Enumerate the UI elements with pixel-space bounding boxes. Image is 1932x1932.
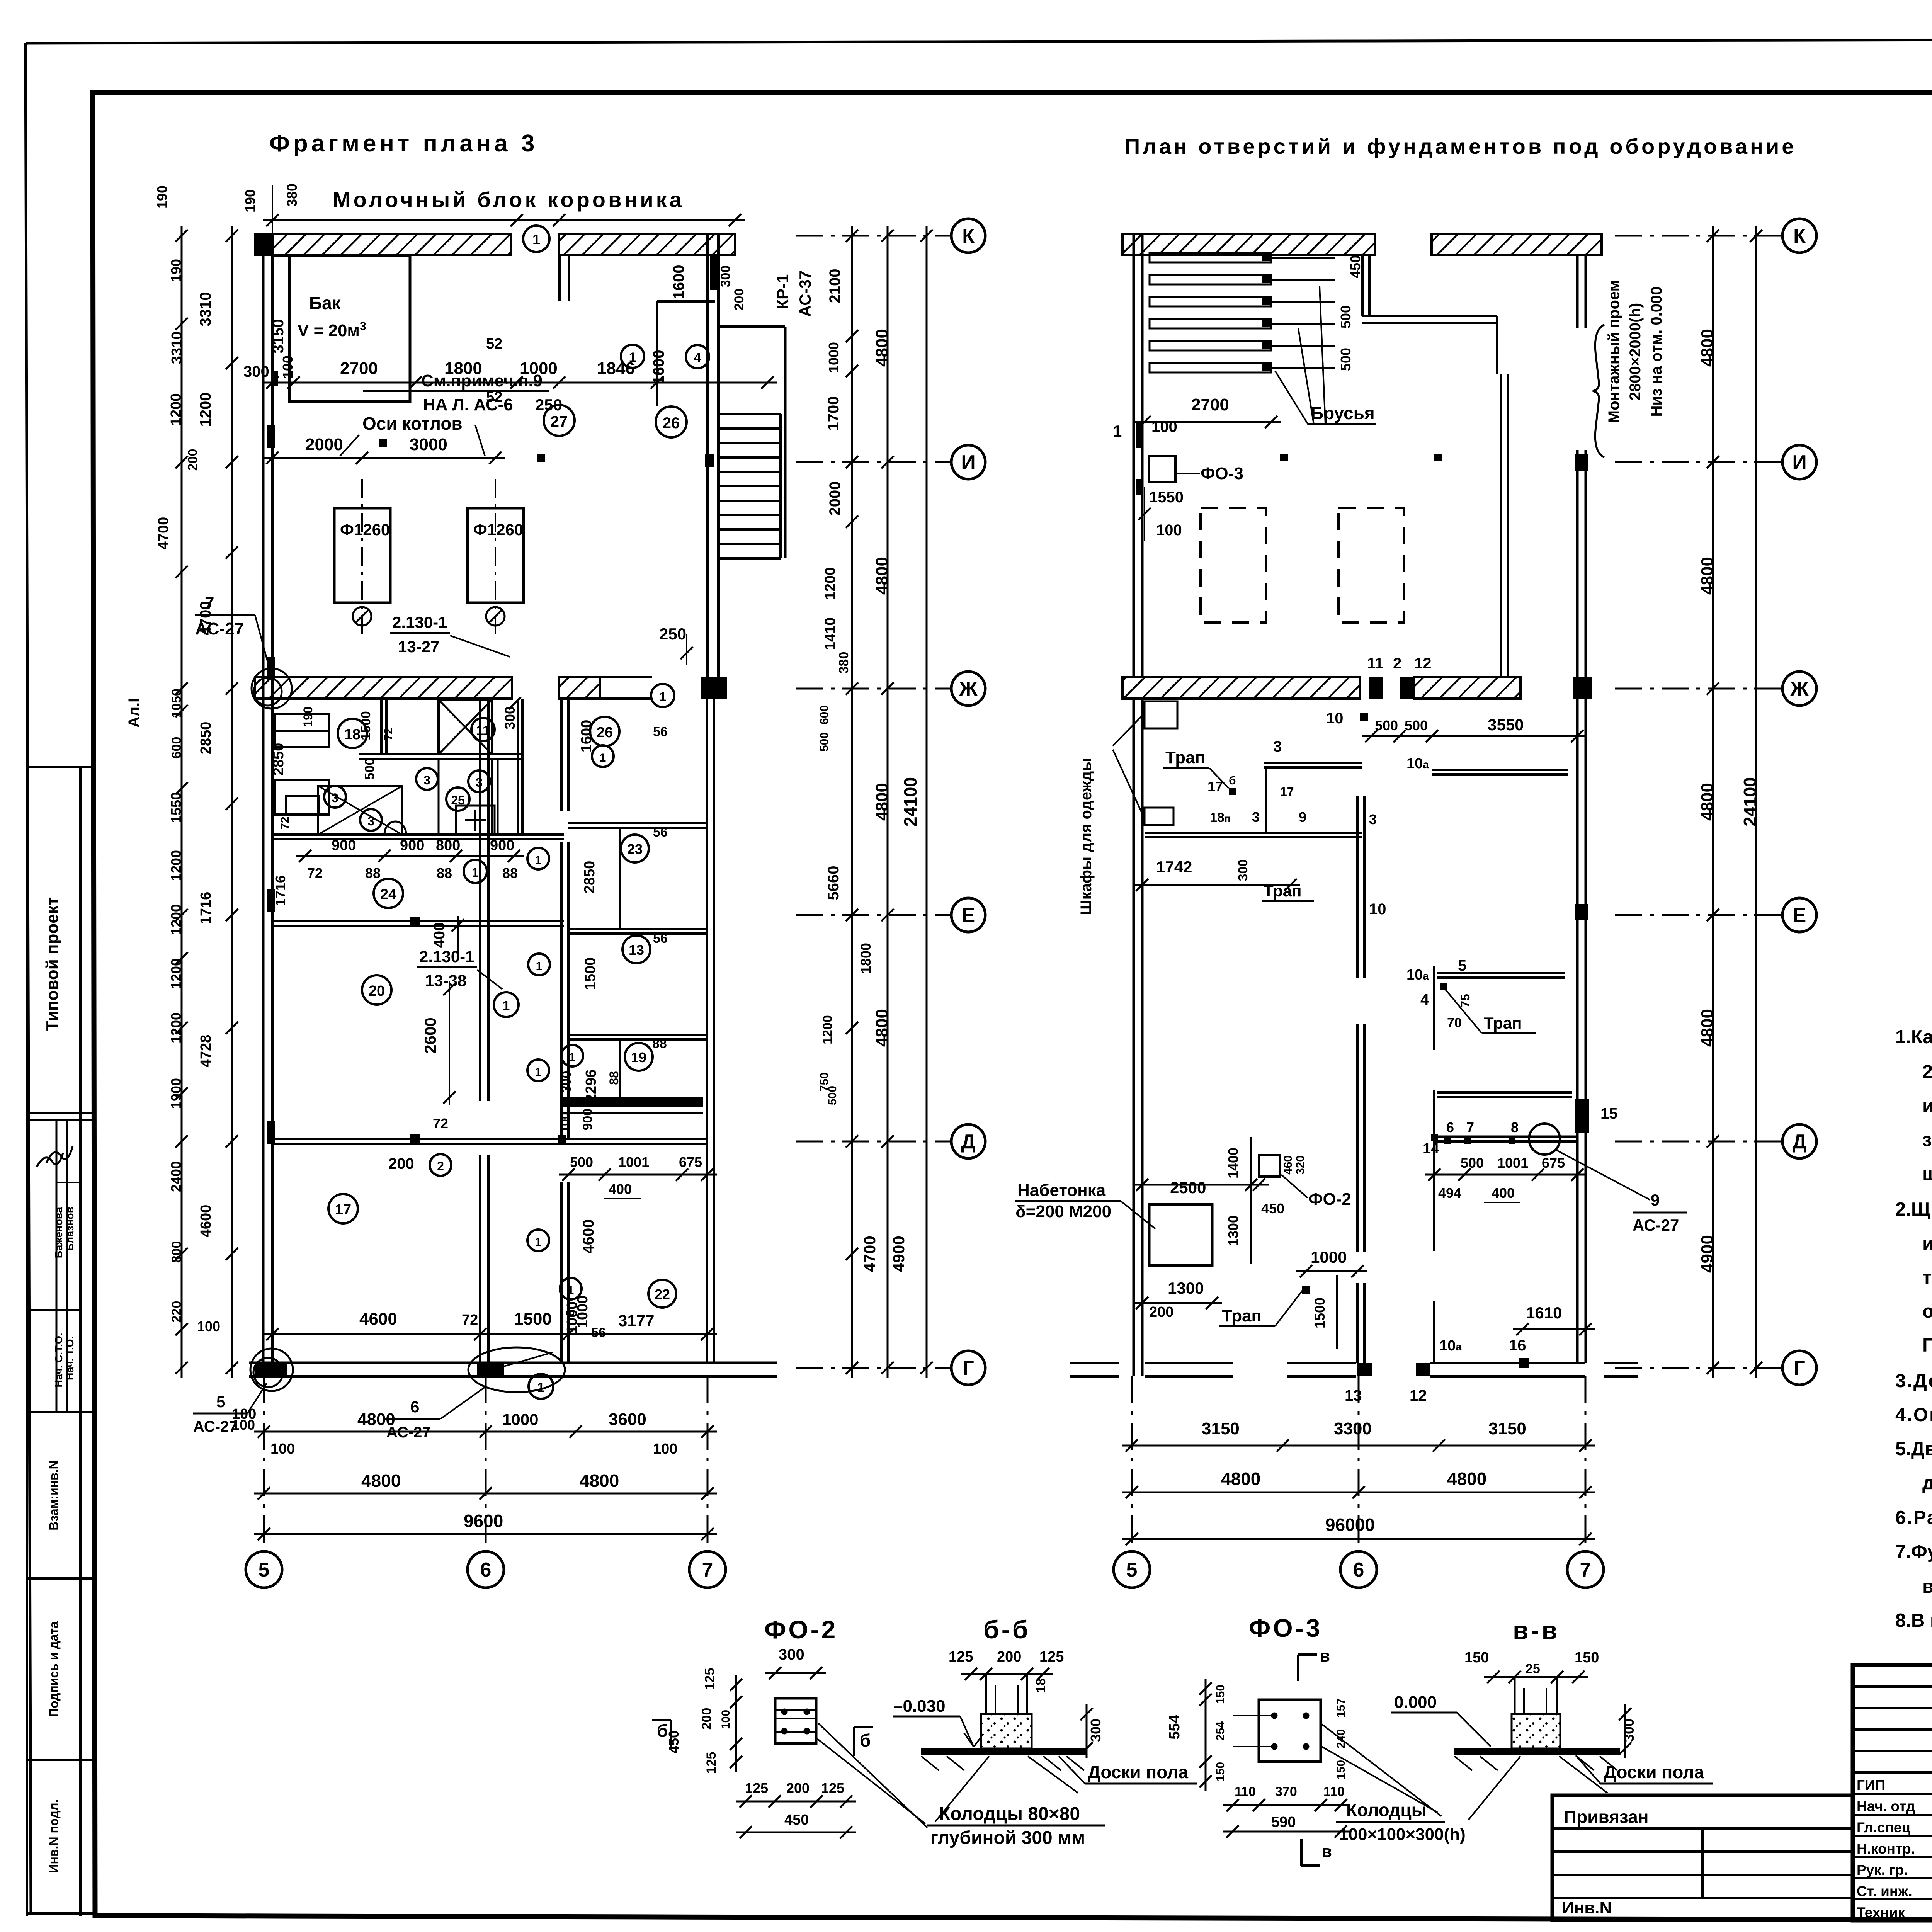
svg-text:Привязан: Привязан — [1564, 1807, 1649, 1827]
svg-text:17: 17 — [335, 1202, 351, 1218]
svg-text:88: 88 — [502, 865, 518, 881]
svg-text:б: б — [1229, 774, 1236, 787]
plan2 right dim chain — [1698, 226, 1719, 1378]
plan2 room 15 block — [1423, 1090, 1687, 1251]
svg-text:б-б: б-б — [983, 1615, 1031, 1644]
rotated label: Подпись и дата — [47, 1621, 61, 1717]
трап + partitions (rooms 17б/18п/3/9) — [1133, 738, 1568, 901]
svg-text:2850: 2850 — [270, 743, 287, 776]
svg-text:3150: 3150 — [1488, 1419, 1526, 1438]
привязан box — [1552, 1795, 1853, 1920]
svg-text:б: б — [657, 1721, 668, 1741]
svg-text:450: 450 — [666, 1730, 682, 1753]
svg-text:2850: 2850 — [198, 722, 214, 755]
svg-text:Е: Е — [962, 904, 975, 927]
notes text block — [1895, 1027, 1932, 1631]
small column squares plan2 — [1280, 454, 1442, 461]
svg-text:1000: 1000 — [520, 359, 558, 378]
svg-text:200: 200 — [732, 289, 747, 311]
svg-text:22: 22 — [655, 1286, 670, 1302]
sanitary block partitions (rooms 18/25/3) — [272, 699, 564, 839]
svg-text:и обвязки 80×25(100×50)мм,сбив: и обвязки 80×25(100×50)мм,сбиваемые гвоз… — [1922, 1095, 1932, 1116]
small black column marks (plan1 top room) — [272, 371, 545, 462]
svg-text:2000: 2000 — [305, 435, 343, 454]
svg-text:500: 500 — [818, 732, 831, 752]
svg-text:5: 5 — [259, 1559, 270, 1581]
plan2 top wall (axis К) hatched — [1122, 234, 1602, 255]
svg-text:2500: 2500 — [1170, 1179, 1206, 1197]
svg-text:300: 300 — [718, 265, 733, 287]
svg-text:500: 500 — [1405, 718, 1428, 733]
svg-text:1: 1 — [472, 866, 479, 879]
svg-text:190: 190 — [168, 259, 184, 282]
svg-text:6.Работать совместно с листом: 6.Работать совместно с листом АС-4,АС-5. — [1895, 1507, 1932, 1528]
svg-text:1500: 1500 — [582, 957, 599, 990]
svg-text:25: 25 — [451, 793, 465, 807]
svg-text:4800: 4800 — [872, 329, 891, 367]
svg-text:3310: 3310 — [169, 332, 185, 364]
svg-text:1: 1 — [532, 231, 540, 247]
svg-text:К: К — [1793, 225, 1806, 247]
subtitle: Молочный блок коровника — [333, 187, 684, 212]
plan1 middle wall (axis Ж) hatched — [255, 677, 727, 699]
svg-text:157: 157 — [1335, 1698, 1347, 1718]
svg-text:4: 4 — [1420, 991, 1429, 1008]
svg-text:200: 200 — [1149, 1304, 1173, 1320]
boiler 2 (Ф1260) — [468, 479, 524, 638]
plan1 right dim chain — [818, 226, 874, 1378]
svg-text:20: 20 — [369, 983, 385, 999]
svg-text:10: 10 — [1326, 710, 1344, 727]
svg-text:12: 12 — [1410, 1387, 1427, 1404]
svg-text:И: И — [1792, 451, 1806, 474]
svg-text:Трап: Трап — [1222, 1306, 1262, 1325]
svg-text:15: 15 — [1600, 1105, 1618, 1122]
svg-text:КР-1: КР-1 — [774, 274, 792, 310]
svg-text:190: 190 — [242, 189, 258, 213]
detail б-б — [893, 1615, 1197, 1822]
svg-text:150: 150 — [1214, 1762, 1227, 1781]
svg-text:16: 16 — [1509, 1337, 1526, 1354]
svg-text:190: 190 — [301, 706, 315, 727]
svg-text:52: 52 — [486, 336, 502, 352]
svg-text:1: 1 — [568, 1284, 574, 1297]
svg-text:δ=200 М200: δ=200 М200 — [1015, 1202, 1111, 1221]
svg-text:Ж: Ж — [959, 678, 978, 700]
svg-text:1: 1 — [536, 960, 543, 973]
svg-text:2.Щитовые перегородки выполняю: 2.Щитовые перегородки выполняются из дер… — [1895, 1199, 1932, 1220]
callout 7/АС-27 upper left — [195, 594, 292, 709]
svg-text:800: 800 — [436, 837, 460, 854]
svg-text:200: 200 — [185, 449, 200, 471]
svg-text:выполнять совместно с бетониро: выполнять совместно с бетонированием пол… — [1922, 1576, 1932, 1597]
svg-text:2600: 2600 — [421, 1017, 439, 1053]
svg-text:шивка листами твердой ДВП δ=4: шивка листами твердой ДВП δ=4 мм ГОСТ 45… — [1922, 1163, 1932, 1184]
svg-text:250: 250 — [659, 625, 686, 643]
dashed foundation rectangles — [1201, 508, 1404, 622]
svg-text:300: 300 — [779, 1646, 804, 1663]
plan2 bottom dim chains — [1122, 1419, 1595, 1545]
svg-text:250: 250 — [535, 396, 562, 414]
rotated label: Взамен инв.N — [47, 1460, 61, 1530]
svg-text:24: 24 — [380, 886, 396, 903]
svg-text:2850: 2850 — [582, 861, 598, 894]
svg-text:52: 52 — [486, 389, 502, 405]
svg-text:Ст. инж.: Ст. инж. — [1857, 1883, 1912, 1899]
svg-text:4800: 4800 — [872, 783, 891, 821]
svg-text:8.В гардеробной установить шка: 8.В гардеробной установить шкафы по ГОСТ… — [1895, 1610, 1932, 1631]
boiler axes label: Оси котлов — [340, 413, 485, 456]
svg-text:900: 900 — [580, 1109, 595, 1131]
plan1 left wall — [263, 234, 275, 1376]
svg-text:72: 72 — [307, 865, 323, 881]
svg-text:190: 190 — [154, 185, 170, 209]
svg-text:заполнение минераловатными пли: заполнение минераловатными плитами δ=80м… — [1922, 1129, 1932, 1150]
svg-text:4800: 4800 — [1221, 1469, 1260, 1489]
svg-text:100: 100 — [270, 1441, 295, 1457]
svg-text:1600: 1600 — [650, 350, 667, 384]
svg-text:3: 3 — [332, 791, 338, 805]
detail ФО-3 — [1167, 1614, 1466, 1866]
staircase — [719, 327, 785, 558]
svg-text:1200: 1200 — [168, 904, 184, 935]
svg-text:1300: 1300 — [1225, 1215, 1241, 1246]
plan1 right total dim 24100 — [900, 226, 933, 1378]
svg-text:56: 56 — [653, 825, 668, 840]
plan2 набетонка square + label — [1015, 1181, 1222, 1320]
svg-text:7: 7 — [1580, 1559, 1591, 1581]
svg-text:Типовой проект: Типовой проект — [43, 897, 62, 1031]
plan2 ФО-2 square + dims — [1133, 1137, 1351, 1264]
ФО-3 square in plan2 — [1138, 456, 1243, 541]
svg-text:1: 1 — [1113, 422, 1122, 440]
svg-text:675: 675 — [1542, 1155, 1565, 1171]
plan1 bottom dim chains — [232, 1406, 717, 1540]
svg-text:1500: 1500 — [514, 1310, 552, 1328]
svg-text:2400: 2400 — [168, 1161, 184, 1192]
left dim chain (outer) plan1 — [154, 185, 255, 1433]
plan2 bottom wall (axis Г) — [1070, 1363, 1638, 1404]
svg-text:в-в: в-в — [1513, 1616, 1560, 1645]
svg-text:125: 125 — [704, 1752, 719, 1774]
plan2 трап + 1000/1500 dims — [1219, 1248, 1367, 1349]
svg-text:800: 800 — [169, 1241, 184, 1263]
svg-text:220: 220 — [169, 1301, 184, 1323]
svg-text:1050: 1050 — [169, 689, 184, 718]
svg-text:для самозакрывания и уплотните: для самозакрывания и уплотнителями в при… — [1922, 1473, 1932, 1493]
svg-text:ГОСТ 2850-80.: ГОСТ 2850-80. — [1922, 1335, 1932, 1356]
svg-text:Монтажный проем: Монтажный проем — [1605, 280, 1622, 423]
svg-text:и обшиваются листами твердой Д: и обшиваются листами твердой ДВП δ=4мм Г… — [1922, 1233, 1932, 1254]
svg-text:Е: Е — [1793, 904, 1806, 927]
svg-text:Подпись и дата: Подпись и дата — [47, 1621, 61, 1717]
svg-text:125: 125 — [821, 1780, 844, 1796]
svg-text:3600: 3600 — [609, 1410, 646, 1429]
dim 250 у Ж wall — [651, 625, 693, 707]
svg-text:18: 18 — [1034, 1678, 1048, 1693]
svg-text:88: 88 — [365, 865, 381, 881]
svg-text:380: 380 — [837, 652, 851, 674]
svg-text:Низ на отм. 0.000: Низ на отм. 0.000 — [1648, 287, 1665, 417]
room 17 circle — [328, 1194, 358, 1223]
left stamp column — [27, 767, 95, 1916]
plan2 left wall — [1134, 234, 1142, 1376]
svg-text:АС-27: АС-27 — [1633, 1216, 1679, 1234]
upper-right corridor wall pieces — [560, 255, 715, 406]
boiler axis dim 2000 3000 — [263, 435, 505, 464]
svg-text:3: 3 — [367, 814, 374, 828]
room 20 circle — [362, 975, 391, 1005]
svg-text:6: 6 — [1353, 1559, 1364, 1581]
svg-text:4600: 4600 — [198, 1205, 214, 1238]
svg-text:150: 150 — [1575, 1650, 1599, 1666]
svg-text:1500: 1500 — [359, 711, 373, 740]
room circles 18,11,25,3,3,3,26 — [324, 717, 619, 831]
title block staff rows — [1857, 1774, 1932, 1920]
svg-text:4900: 4900 — [1698, 1235, 1717, 1273]
svg-text:554: 554 — [1167, 1715, 1183, 1739]
partition at axis Д (rooms 20/17) — [272, 1134, 707, 1145]
svg-text:1500: 1500 — [1312, 1298, 1328, 1328]
svg-text:1846: 1846 — [597, 359, 635, 378]
svg-text:План отверстий и фундаментов п: План отверстий и фундаментов под оборудо… — [1124, 134, 1796, 158]
svg-text:8: 8 — [1511, 1119, 1519, 1135]
svg-text:1200: 1200 — [822, 567, 838, 600]
dim 2600 vertical in room 20 — [421, 981, 456, 1131]
bottom axis number circles (plan 2) — [1114, 1376, 1604, 1588]
монтажный проем note (rotated) — [1593, 280, 1665, 457]
dim 200 + circle 2 — [388, 1154, 451, 1176]
svg-text:Ф1260: Ф1260 — [473, 520, 523, 539]
partition ref 2.130-1/13-27 — [390, 613, 510, 657]
svg-text:675: 675 — [679, 1154, 702, 1170]
svg-text:900: 900 — [332, 837, 356, 854]
svg-text:1200: 1200 — [168, 1012, 184, 1043]
svg-text:1200: 1200 — [168, 958, 184, 989]
callout 6/АС-27 + oval door mark bottom — [383, 1347, 565, 1441]
svg-text:Г: Г — [1794, 1357, 1805, 1379]
svg-text:300: 300 — [502, 706, 518, 730]
svg-text:4700: 4700 — [861, 1236, 879, 1272]
svg-text:Набетонка: Набетонка — [1017, 1181, 1106, 1200]
svg-text:3550: 3550 — [1488, 716, 1524, 734]
svg-text:Баженова: Баженова — [53, 1207, 65, 1258]
svg-text:Нач. С.Т.О.: Нач. С.Т.О. — [53, 1333, 65, 1388]
svg-text:И: И — [961, 451, 975, 474]
svg-text:1: 1 — [600, 752, 606, 764]
svg-text:23: 23 — [627, 841, 643, 857]
svg-text:96000: 96000 — [1325, 1515, 1375, 1535]
svg-text:2: 2 — [437, 1159, 444, 1173]
rotated label: Инв.N подл. — [47, 1799, 61, 1873]
dims 900x4 under sanitary block — [270, 697, 524, 906]
svg-text:1400: 1400 — [1225, 1148, 1241, 1179]
svg-text:4600: 4600 — [580, 1219, 597, 1254]
svg-text:500: 500 — [1338, 305, 1354, 328]
svg-text:Оси котлов: Оси котлов — [362, 413, 463, 434]
svg-text:2.130-1: 2.130-1 — [419, 947, 474, 966]
svg-text:200: 200 — [786, 1780, 810, 1796]
svg-text:300: 300 — [1621, 1719, 1637, 1742]
svg-text:18п: 18п — [1210, 810, 1231, 825]
svg-text:7: 7 — [1466, 1119, 1474, 1135]
svg-text:27: 27 — [551, 413, 568, 430]
svg-text:17: 17 — [1280, 785, 1294, 799]
svg-text:400: 400 — [1492, 1185, 1515, 1201]
svg-text:2.130-1: 2.130-1 — [392, 613, 447, 631]
room circle 26 (upper) — [656, 406, 687, 437]
dim line above plan1 top wall — [242, 184, 745, 234]
svg-text:2700: 2700 — [340, 359, 378, 378]
svg-text:200: 200 — [699, 1708, 714, 1730]
right room partitions (23/13/19/22) — [562, 823, 707, 1113]
svg-text:АС-27: АС-27 — [193, 1418, 238, 1435]
svg-text:460: 460 — [1282, 1155, 1294, 1175]
title: Фрагмент плана 3 — [269, 130, 538, 157]
svg-text:Взам:инв.N: Взам:инв.N — [47, 1460, 61, 1530]
svg-text:320: 320 — [1294, 1155, 1307, 1175]
svg-text:450: 450 — [1261, 1201, 1284, 1216]
svg-text:1001: 1001 — [1497, 1155, 1528, 1171]
svg-text:1000: 1000 — [826, 342, 842, 373]
svg-text:254: 254 — [1214, 1721, 1227, 1741]
svg-text:4700: 4700 — [197, 601, 214, 636]
svg-text:56: 56 — [653, 931, 668, 946]
svg-text:2296: 2296 — [583, 1070, 599, 1102]
svg-text:Шкафы для одежды: Шкафы для одежды — [1078, 758, 1095, 915]
dim 10 500 500 3550 under Ж wall — [1326, 710, 1587, 742]
svg-text:14: 14 — [1423, 1141, 1439, 1157]
plan1 bottom wall (axis Г) — [249, 1349, 777, 1391]
svg-text:1610: 1610 — [1526, 1304, 1562, 1322]
fuel tank Бак V=20м3 — [270, 255, 410, 401]
svg-text:6: 6 — [480, 1559, 492, 1581]
partition at axis Е (rooms 24/20) — [272, 917, 564, 927]
svg-text:ГИП: ГИП — [1857, 1777, 1885, 1793]
svg-text:3: 3 — [423, 773, 430, 787]
svg-text:3177: 3177 — [618, 1311, 654, 1330]
corridor walls (axis 6) — [480, 699, 568, 1363]
svg-text:1200: 1200 — [820, 1015, 835, 1044]
note link: См.примеч.п.9 НА Л. АС-6 — [363, 371, 549, 414]
svg-text:глубиной 300 мм: глубиной 300 мм — [930, 1828, 1085, 1848]
svg-text:турятся, кроме электрощитовой,: турятся, кроме электрощитовой,внутренние… — [1922, 1267, 1932, 1288]
title block main frame — [1853, 1665, 1932, 1932]
rotated label: approvals — [37, 1146, 76, 1387]
svg-text:6: 6 — [410, 1398, 419, 1416]
svg-text:4800: 4800 — [872, 1009, 891, 1047]
svg-text:б: б — [860, 1730, 871, 1750]
svg-text:450: 450 — [784, 1812, 809, 1828]
plan1 right wall upper (boiler room, axis 7) — [705, 234, 719, 677]
svg-text:110: 110 — [1235, 1784, 1256, 1799]
svg-text:3: 3 — [1252, 809, 1260, 825]
svg-text:V = 20м3: V = 20м3 — [298, 320, 366, 340]
svg-text:6: 6 — [1446, 1119, 1454, 1135]
svg-text:в: в — [1321, 1842, 1332, 1861]
svg-text:3.Детали перегородок смотри ли: 3.Детали перегородок смотри лист АС-11. — [1895, 1371, 1932, 1391]
svg-text:3150: 3150 — [270, 319, 287, 354]
svg-text:1000: 1000 — [502, 1410, 538, 1429]
plan2 middle wall (axis Ж) hatched + openings 11,2,12 — [1122, 655, 1592, 699]
svg-text:1: 1 — [535, 1236, 542, 1248]
svg-text:4800: 4800 — [1698, 329, 1717, 367]
ref 2.130-1/13-38 — [417, 947, 519, 1017]
left dim chain (inner) plan1 — [197, 226, 238, 1378]
rotated dims right rooms — [558, 720, 668, 1340]
svg-text:26: 26 — [663, 415, 680, 432]
svg-text:3000: 3000 — [410, 435, 447, 454]
svg-text:Ж: Ж — [1790, 678, 1809, 700]
svg-text:0.000: 0.000 — [1394, 1693, 1437, 1712]
svg-text:Ф1260: Ф1260 — [340, 520, 390, 539]
svg-text:1000: 1000 — [1311, 1248, 1347, 1266]
svg-text:9: 9 — [1651, 1191, 1660, 1209]
svg-text:Трап: Трап — [1264, 882, 1301, 900]
svg-text:Д: Д — [961, 1131, 975, 1153]
svg-text:88: 88 — [607, 1071, 621, 1085]
svg-text:18: 18 — [344, 726, 361, 743]
svg-text:4800: 4800 — [580, 1471, 619, 1491]
svg-text:1200: 1200 — [197, 393, 214, 427]
svg-text:1716: 1716 — [272, 875, 288, 906]
svg-text:4800: 4800 — [872, 557, 891, 595]
svg-text:5.Двери брандмауэрных стен (по: 5.Двери брандмауэрных стен (поз.1) выпол… — [1895, 1439, 1932, 1459]
plan2 bottom right room dims 1610 / 10а / 16 — [1434, 1301, 1595, 1368]
svg-text:2.130-1 вып.13 лист 6 – деревя: 2.130-1 вып.13 лист 6 – деревянный карка… — [1922, 1061, 1932, 1082]
svg-text:72: 72 — [279, 816, 291, 829]
svg-text:125: 125 — [949, 1649, 973, 1665]
svg-text:13-27: 13-27 — [398, 638, 439, 656]
svg-text:72: 72 — [462, 1312, 478, 1328]
svg-text:100: 100 — [197, 1318, 220, 1334]
svg-text:200: 200 — [997, 1649, 1021, 1665]
svg-text:АС-37: АС-37 — [796, 270, 814, 317]
svg-text:Рук. гр.: Рук. гр. — [1857, 1862, 1908, 1878]
svg-text:4800: 4800 — [1447, 1469, 1486, 1489]
svg-text:5660: 5660 — [825, 866, 842, 900]
svg-text:4800: 4800 — [1698, 783, 1717, 821]
svg-text:–0.030: –0.030 — [893, 1697, 946, 1716]
svg-text:500: 500 — [362, 758, 377, 780]
svg-text:1800: 1800 — [444, 359, 482, 378]
svg-text:1001: 1001 — [618, 1154, 649, 1170]
svg-text:13-38: 13-38 — [425, 971, 466, 990]
брусья (timber beams) — [1150, 253, 1335, 372]
title: План отверстий и фундаментов под оборудование — [1124, 134, 1796, 158]
svg-text:13: 13 — [629, 942, 644, 958]
svg-text:1: 1 — [537, 1380, 545, 1395]
svg-text:1742: 1742 — [1156, 858, 1192, 876]
svg-text:17: 17 — [1207, 779, 1223, 794]
svg-text:Нач. отд: Нач. отд — [1857, 1798, 1915, 1814]
svg-text:Г: Г — [963, 1357, 974, 1379]
svg-text:300: 300 — [243, 363, 269, 380]
svg-text:1200: 1200 — [168, 393, 184, 426]
svg-text:Фрагмент плана 3: Фрагмент плана 3 — [269, 130, 538, 157]
svg-text:100: 100 — [653, 1441, 677, 1457]
svg-text:1300: 1300 — [1168, 1279, 1204, 1297]
svg-text:ФО-3: ФО-3 — [1249, 1614, 1322, 1642]
svg-text:1900: 1900 — [168, 1078, 184, 1109]
svg-text:88: 88 — [437, 865, 452, 881]
svg-text:9: 9 — [1299, 809, 1306, 825]
svg-text:3310: 3310 — [197, 292, 214, 327]
callout 5/АС-27 bottom left — [193, 1383, 267, 1435]
svg-text:К: К — [962, 225, 975, 247]
svg-text:9600: 9600 — [464, 1511, 503, 1531]
svg-text:1550: 1550 — [1149, 489, 1184, 506]
